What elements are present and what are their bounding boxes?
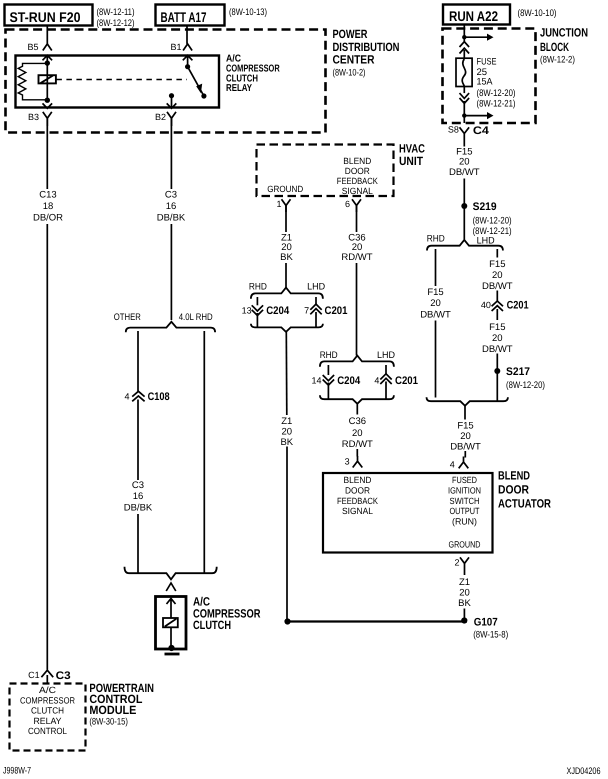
svg-text:F15: F15 (457, 421, 473, 432)
connector C204 chevrons (14) (323, 375, 334, 385)
svg-text:BLOCK: BLOCK (540, 40, 569, 54)
svg-text:Z1: Z1 (459, 577, 470, 588)
relay coil (39, 75, 56, 83)
svg-text:C204: C204 (266, 305, 290, 317)
relay contact B2 dot (169, 93, 174, 98)
svg-text:C204: C204 (337, 375, 361, 387)
pin B3 connector symbols (43, 103, 53, 126)
label POWERTRAIN CONTROL MODULE (89, 681, 153, 728)
ground wire to G107 (287, 620, 467, 622)
fuse 25 (456, 58, 472, 86)
A/C compressor clutch box (156, 597, 187, 650)
svg-text:(8W-10-13): (8W-10-13) (229, 7, 267, 18)
svg-text:J998W-7: J998W-7 (3, 766, 31, 777)
wire RHD branch (C36) lower (327, 383, 329, 400)
svg-text:7: 7 (304, 306, 309, 316)
svg-text:S8: S8 (448, 124, 459, 134)
wire BATT A17 to B1 (186, 26, 188, 44)
svg-text:FEEDBACK: FEEDBACK (337, 176, 378, 186)
svg-text:(8W-15-8): (8W-15-8) (473, 630, 508, 641)
ground splice dot G107 (461, 617, 467, 623)
pin 2 fork (460, 557, 469, 575)
wire OTHER branch lower (137, 400, 139, 574)
wire B2 dot to edge (171, 96, 173, 108)
relay switch blade (188, 67, 204, 96)
wire OTHER branch upper (137, 331, 139, 391)
rejoin Z1 branches (251, 324, 323, 332)
svg-text:CLUTCH: CLUTCH (193, 618, 231, 632)
svg-text:(8W-10-10): (8W-10-10) (518, 8, 557, 19)
svg-text:XJD04206: XJD04206 (567, 766, 601, 777)
label A/C COMPRESSOR CLUTCH (193, 595, 261, 633)
wire chevron to fuse (463, 50, 465, 58)
svg-text:CLUTCH: CLUTCH (31, 706, 64, 716)
inline connector chevron above clutch (166, 583, 176, 591)
svg-text:B3: B3 (28, 112, 39, 122)
svg-text:20: 20 (352, 428, 363, 439)
svg-text:RHD: RHD (427, 234, 445, 245)
wire LHD branch (Z1) upper (315, 297, 317, 304)
svg-text:Z1: Z1 (281, 416, 292, 427)
pin 6 fork (352, 199, 361, 212)
junction dot top (45, 60, 50, 65)
HVAC pin label BLEND DOOR FEEDBACK SIGNAL (337, 156, 378, 196)
svg-text:S217: S217 (506, 366, 530, 378)
wire LHD branch (Z1) lower (315, 312, 317, 327)
svg-text:DOOR: DOOR (498, 483, 529, 497)
svg-text:SIGNAL: SIGNAL (342, 506, 373, 516)
svg-text:C4: C4 (473, 125, 490, 137)
pin B1 connector symbols (183, 44, 193, 67)
wire LHD branch (C36) upper (385, 365, 387, 374)
power distribution center dashed box (6, 30, 326, 133)
svg-text:BLEND: BLEND (498, 469, 530, 483)
svg-text:DOOR: DOOR (345, 485, 370, 495)
svg-text:BK: BK (280, 252, 293, 263)
svg-text:CENTER: CENTER (333, 53, 375, 67)
svg-text:RUN A22: RUN A22 (449, 8, 498, 24)
dashed actuation link (56, 79, 187, 81)
inline connector chevrons below fuse (down) (460, 93, 470, 103)
wire C13 from B3 to PCM (46, 118, 48, 670)
wire RHD branch (Z1) upper (256, 297, 258, 305)
wire C36 rejoin to pin 3 (356, 404, 358, 457)
wire label F15 20 DB/WT (to pin 4) (450, 421, 481, 453)
connector C108 chevrons (132, 391, 144, 401)
svg-text:DB/BK: DB/BK (157, 213, 186, 224)
svg-text:OUTPUT: OUTPUT (450, 506, 480, 516)
svg-text:RD/WT: RD/WT (342, 439, 373, 450)
wire fuse down (463, 87, 465, 94)
svg-text:IGNITION: IGNITION (448, 485, 481, 495)
label BLEND DOOR ACTUATOR (498, 469, 551, 511)
svg-text:DOOR: DOOR (345, 166, 370, 176)
case ground bar (165, 653, 180, 656)
relay switch end dot (201, 93, 206, 98)
wire label C3 16 DB/BK (other branch) (124, 480, 153, 514)
svg-text:16: 16 (133, 491, 144, 502)
svg-text:FUSED: FUSED (452, 475, 477, 485)
svg-text:LHD: LHD (377, 350, 395, 361)
splice S217 (494, 368, 500, 374)
svg-text:18: 18 (43, 201, 54, 212)
svg-text:C201: C201 (325, 305, 348, 317)
PCM pin function text (20, 685, 75, 736)
svg-text:F15: F15 (489, 322, 505, 333)
junction dot with right arrow (top) (462, 34, 493, 41)
svg-text:20: 20 (492, 270, 503, 281)
svg-text:JUNCTION: JUNCTION (540, 26, 588, 40)
split OTHER / 4.0L RHD (126, 322, 215, 332)
svg-text:OTHER: OTHER (114, 312, 141, 323)
relay switch contact B1 dot (185, 64, 190, 69)
svg-text:LHD: LHD (307, 282, 325, 293)
connector box RUN A22 (443, 5, 510, 25)
wire C4 to S219 (463, 141, 465, 207)
svg-text:CONTROL: CONTROL (28, 726, 67, 736)
svg-text:BK: BK (458, 598, 471, 609)
pin 4 fork (459, 457, 469, 469)
splice S219 (461, 203, 467, 209)
svg-text:4: 4 (374, 376, 379, 386)
svg-text:(8W-10-2): (8W-10-2) (333, 68, 366, 79)
svg-text:(8W-12-20): (8W-12-20) (473, 216, 512, 227)
pin B2 connector symbols (167, 103, 177, 126)
case ground dot (168, 645, 174, 651)
wire 4.0L RHD branch (203, 331, 205, 573)
fuse labels FUSE 25 15A (477, 57, 516, 110)
clutch coil (163, 618, 178, 627)
wire label Z1 20 BK (actuator) (458, 577, 471, 609)
actuator pin text BLEND DOOR FEEDBACK SIGNAL (337, 475, 378, 516)
svg-text:MODULE: MODULE (89, 703, 136, 717)
split RHD / LHD (F15) (427, 240, 503, 251)
pin 1 fork (282, 199, 291, 212)
svg-text:C201: C201 (507, 300, 529, 312)
svg-text:DB/WT: DB/WT (449, 167, 480, 178)
svg-text:B5: B5 (28, 42, 39, 52)
label G107 (8W-15-8) (473, 617, 508, 641)
relay box A/C compressor clutch relay (16, 56, 220, 108)
reference (8W-12-11)(8W-12-12) (97, 7, 135, 29)
svg-text:C201: C201 (395, 375, 418, 387)
wire label Z1 20 BK (lower) (280, 416, 293, 448)
pin C1 connector (41, 670, 53, 683)
wire label F15 20 DB/WT (LHD lower) (482, 322, 513, 355)
resistor (relay coil suppression) (18, 63, 47, 99)
wire label C3 16 DB/BK (157, 190, 186, 224)
rejoin C36 branches (320, 395, 394, 404)
svg-text:20: 20 (430, 298, 441, 309)
wire label F15 20 DB/WT (LHD upper) (482, 259, 513, 292)
junction block dashed box (443, 29, 536, 124)
svg-text:F15: F15 (489, 259, 505, 270)
svg-text:C13: C13 (39, 190, 56, 201)
svg-text:BLEND: BLEND (343, 156, 371, 166)
connector C201 chevrons (4) (380, 374, 391, 384)
wire label C36 20 RD/WT (lower) (342, 416, 373, 450)
svg-text:FEEDBACK: FEEDBACK (337, 496, 378, 506)
svg-text:UNIT: UNIT (399, 154, 424, 168)
blend door actuator box (323, 473, 493, 553)
svg-text:S219: S219 (473, 201, 497, 213)
pin B5 connector symbols (43, 44, 53, 63)
svg-text:DB/OR: DB/OR (33, 213, 63, 224)
wire LHD branch middle (496, 309, 498, 371)
svg-text:DB/WT: DB/WT (450, 442, 481, 453)
wire pin 2 to G107 (463, 609, 465, 622)
svg-text:DB/WT: DB/WT (482, 344, 513, 355)
svg-text:DB/WT: DB/WT (482, 281, 513, 292)
svg-text:3: 3 (345, 457, 350, 467)
svg-text:20: 20 (282, 427, 293, 438)
svg-text:ACTUATOR: ACTUATOR (498, 497, 551, 511)
svg-text:GROUND: GROUND (449, 540, 481, 550)
label HVAC UNIT (399, 142, 425, 169)
wire C3 from B2 to split (170, 118, 172, 320)
wire label Z1 20 BK (280, 233, 293, 264)
svg-text:F15: F15 (427, 287, 443, 298)
svg-text:1: 1 (277, 199, 282, 209)
svg-text:C1: C1 (28, 670, 40, 680)
wire Z1 pin1 to split (285, 206, 287, 288)
svg-text:15A: 15A (477, 77, 494, 88)
junction dot with right arrow (bottom) (462, 112, 493, 119)
wire LHD branch upper (496, 249, 498, 301)
svg-text:4: 4 (125, 392, 130, 402)
svg-text:4: 4 (450, 460, 455, 470)
powertrain control module dashed box (10, 684, 86, 751)
svg-text:C36: C36 (349, 416, 366, 427)
wire coil to case (170, 627, 172, 648)
svg-text:G107: G107 (474, 617, 498, 629)
svg-text:BK: BK (280, 437, 293, 448)
svg-text:C3: C3 (132, 480, 144, 491)
wire RUN A22 into junction block (463, 25, 465, 42)
rejoin to A/C clutch (125, 567, 217, 580)
wire RHD branch (C36) upper (327, 365, 329, 375)
svg-text:C3: C3 (165, 190, 177, 201)
HVAC unit dashed box (257, 145, 394, 197)
connector C204 chevrons (13) (252, 305, 263, 315)
svg-text:BATT A17: BATT A17 (161, 9, 207, 25)
wire label C36 20 RD/WT (341, 233, 372, 264)
svg-text:RHD: RHD (249, 282, 267, 293)
inline connector chevrons below dot (460, 42, 470, 54)
connector box ST-RUN F20 (5, 5, 93, 26)
wire S219 to split (463, 206, 465, 240)
wire ST-RUN F20 to B5 (46, 26, 48, 44)
svg-text:DB/BK: DB/BK (124, 503, 153, 514)
svg-text:SWITCH: SWITCH (450, 496, 480, 506)
label JUNCTION BLOCK (540, 26, 588, 66)
svg-text:40: 40 (481, 300, 491, 310)
splice label S219 (8W-12-20)(8W-12-21) (473, 201, 512, 237)
svg-text:(8W-12-21): (8W-12-21) (477, 98, 516, 109)
wire RHD branch (435, 249, 437, 398)
wire LHD branch (C36) lower (385, 382, 387, 400)
svg-text:C108: C108 (148, 391, 170, 403)
svg-text:13: 13 (242, 306, 252, 316)
relay coil left wire (46, 63, 48, 100)
svg-text:4.0L RHD: 4.0L RHD (179, 312, 213, 323)
svg-text:2: 2 (455, 558, 460, 568)
wire C36 pin6 down (356, 206, 358, 356)
wire Z1 rejoin to ground line (285, 332, 288, 622)
wire chevrons to bottom dot (463, 101, 465, 123)
svg-text:(8W-30-15): (8W-30-15) (89, 717, 128, 728)
svg-text:(8W-12-2): (8W-12-2) (540, 55, 575, 66)
svg-text:14: 14 (312, 376, 322, 386)
junction dot bottom (45, 98, 50, 103)
svg-text:DB/WT: DB/WT (420, 310, 451, 321)
svg-text:BLEND: BLEND (344, 475, 372, 485)
pin S8 fork (460, 127, 470, 140)
svg-text:ST-RUN F20: ST-RUN F20 (10, 9, 81, 25)
connector box BATT A17 (156, 5, 225, 26)
svg-text:(8W-12-12): (8W-12-12) (97, 18, 135, 29)
clutch pin arrow (167, 599, 176, 619)
wire RHD branch (Z1) lower (256, 313, 258, 327)
svg-text:GROUND: GROUND (267, 184, 303, 194)
label A/C COMPRESSOR CLUTCH RELAY (226, 54, 280, 95)
svg-text:(RUN): (RUN) (452, 517, 477, 527)
svg-text:B2: B2 (155, 112, 166, 122)
svg-text:6: 6 (345, 199, 350, 209)
svg-text:20: 20 (492, 333, 503, 344)
label POWER DISTRIBUTION CENTER (333, 27, 400, 79)
connector C201 chevrons (7) (310, 304, 321, 314)
svg-text:16: 16 (166, 201, 177, 212)
svg-text:RELAY: RELAY (226, 83, 252, 94)
wire rejoin to pin 4 (464, 406, 466, 458)
svg-text:SIGNAL: SIGNAL (342, 186, 373, 196)
split Z1 RHD/LHD (251, 288, 323, 299)
svg-text:RHD: RHD (320, 350, 338, 361)
split C36 RHD/LHD (320, 356, 394, 367)
svg-text:C3: C3 (56, 670, 71, 682)
splice label S217 (8W-12-20) (506, 366, 545, 391)
actuator pin text FUSED IGNITION SWITCH OUTPUT (RUN) (448, 475, 481, 527)
svg-text:20: 20 (459, 588, 470, 599)
svg-text:(8W-12-20): (8W-12-20) (506, 380, 545, 391)
svg-text:RELAY: RELAY (34, 716, 62, 726)
wire S217 to rejoin (496, 371, 498, 401)
svg-text:COMPRESSOR: COMPRESSOR (20, 695, 75, 705)
connector C201 chevrons (40) (492, 301, 503, 311)
svg-text:20: 20 (460, 431, 471, 442)
svg-text:A/C: A/C (39, 685, 57, 695)
svg-text:(8W-12-11): (8W-12-11) (97, 7, 135, 18)
junction dot left (Z1) (284, 618, 290, 624)
svg-text:B1: B1 (171, 42, 182, 52)
svg-text:RD/WT: RD/WT (341, 252, 372, 263)
wire label F15 20 DB/WT (449, 147, 480, 178)
wire label C13 18 DB/OR (33, 190, 63, 224)
pin 3 fork (353, 456, 363, 468)
rejoin F15 branches (427, 397, 508, 406)
wire label F15 20 DB/WT (RHD) (420, 287, 451, 321)
